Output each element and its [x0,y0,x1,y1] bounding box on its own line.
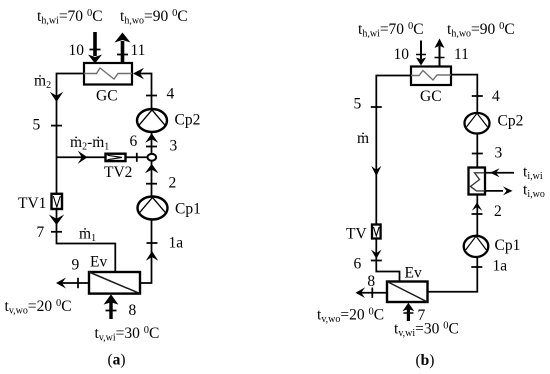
gas cooler GC box [84,63,132,85]
wire: GC left down to TV [376,76,411,225]
evaporator Ev box (b) [387,282,428,303]
svg-text:5: 5 [33,117,41,134]
svg-text:ti,wi: ti,wi [523,164,543,183]
svg-text:Ev: Ev [405,265,422,282]
svg-text:6: 6 [354,256,362,273]
svg-text:th,wo=90 0C: th,wo=90 0C [447,21,515,40]
wire: GC right down to Ev right [428,75,478,292]
arrow 10 (b) down [420,41,422,60]
arrow 11 (water out, thick up) [121,41,125,63]
down arrowhead on left wire (b) [371,166,381,176]
svg-text:GC: GC [96,88,118,105]
svg-text:tv,wo=20 0C: tv,wo=20 0C [317,307,384,326]
svg-text:tv,wo=20 0C: tv,wo=20 0C [5,298,72,317]
arrow 10 (water in, thick down) [93,32,97,56]
wire: TV1 bottom down, right, down into Ev top [57,209,116,272]
tick node 6 [136,153,138,162]
wire: TV bottom, right, down into Ev top [376,239,399,282]
wire: TV2 branch horizontal [57,156,148,158]
wire: GC left outlet down to TV1 [57,74,85,195]
svg-text:TV2: TV2 [104,164,132,181]
svg-text:2: 2 [169,175,177,192]
left arrowhead on Ev outlet [56,278,66,289]
tick node 7 [51,231,62,233]
up arrowhead below Cp2 [145,133,158,143]
svg-text:Ev: Ev [90,254,107,271]
tick node 5 [51,125,62,127]
svg-text:ṁ2: ṁ2 [34,73,51,92]
gas cooler GC box (b) [411,67,451,86]
svg-text:2: 2 [494,203,502,220]
arrow 7 (water in, thick up) (b) [407,309,410,321]
tick node 3 (b) [472,153,483,155]
svg-text:Cp1: Cp1 [495,237,521,254]
svg-text:tv,wi=30 0C: tv,wi=30 0C [394,321,459,340]
svg-text:th,wi=70 0C: th,wi=70 0C [358,21,424,40]
svg-text:ti,wo: ti,wo [523,182,545,201]
tick node 5 (b) [371,106,382,108]
wire: GC right, vertical main line down to Ev right [135,74,152,284]
tick node 1a [147,242,158,244]
valve TV2 box [106,154,126,161]
svg-text:GC: GC [420,88,442,105]
wire: Ev left outlet [58,282,89,284]
down arrowhead below TV1 [49,215,64,226]
svg-text:8: 8 [367,273,375,290]
left arrowhead on Ev outlet (b) [356,287,366,298]
valve TV box (b) [372,225,381,239]
down arrowhead below TV (b) [371,250,382,259]
svg-text:4: 4 [167,86,175,103]
svg-text:3: 3 [170,138,178,155]
arrow 8 (water in, thick up) [109,302,112,319]
down arrowhead on left wire [50,92,63,102]
svg-text:3: 3 [495,145,503,162]
svg-text:10: 10 [394,46,410,63]
up arrowhead below node [145,164,159,173]
svg-text:Cp1: Cp1 [175,201,201,218]
svg-text:TV1: TV1 [18,195,46,212]
svg-text:11: 11 [454,46,469,63]
up arrowhead on Ev right riser [146,251,158,261]
svg-text:ṁ2-ṁ1: ṁ2-ṁ1 [70,134,109,153]
GC zigzag [84,68,132,79]
tick node 4 (b) [472,95,483,97]
svg-text:tv,wi=30 0C: tv,wi=30 0C [95,325,160,344]
tick node 8 wire (b) [371,288,373,298]
svg-text:th,wo=90 0C: th,wo=90 0C [120,8,188,27]
svg-text:Cp2: Cp2 [498,113,524,130]
svg-text:6: 6 [130,133,138,150]
internal heat exchanger IHX box [469,168,486,195]
arrow t_i,wo out of IHX [485,190,503,192]
evaporator Ev box [89,272,140,294]
tick node 1a (b) [471,266,482,268]
compressor Cp1 (b) [464,236,489,257]
arrow 11 (b) up [439,46,441,67]
compressor Cp1 [138,197,168,220]
compressor Cp2 (b) [465,113,490,134]
svg-text:7: 7 [37,224,45,241]
svg-text:10: 10 [69,42,85,59]
svg-text:8: 8 [129,302,137,319]
svg-text:Cp2: Cp2 [175,112,201,129]
svg-text:9: 9 [72,257,80,274]
svg-text:(b): (b) [416,352,435,369]
valve TV1 box [52,194,63,209]
tick node 3 [146,146,157,148]
compressor Cp2 [137,109,167,132]
tick node 6 (b) [371,260,382,262]
arrowhead into GC right side [133,68,144,79]
svg-text:5: 5 [354,96,362,113]
svg-text:(a): (a) [108,352,126,369]
arrow t_i,wi into IHX [486,172,515,174]
svg-text:1a: 1a [493,258,508,275]
mixing node circle [148,154,157,161]
tick node 2 (b) [472,213,483,215]
tick node 9 wire [77,278,79,288]
svg-text:TV: TV [346,226,367,243]
right arrowhead on TV2 wire [78,151,88,164]
tick node 2 [146,183,157,185]
svg-text:4: 4 [492,88,500,105]
svg-text:11: 11 [131,42,146,59]
svg-text:ṁ: ṁ [357,130,369,147]
tick node 4 [146,95,157,97]
wire: Ev left outlet (b) [357,292,387,294]
svg-text:th,wi=70 0C: th,wi=70 0C [37,8,103,27]
svg-text:ṁ1: ṁ1 [79,226,96,245]
svg-text:1a: 1a [169,235,184,252]
up arrowhead below IHX (b) [472,202,482,211]
